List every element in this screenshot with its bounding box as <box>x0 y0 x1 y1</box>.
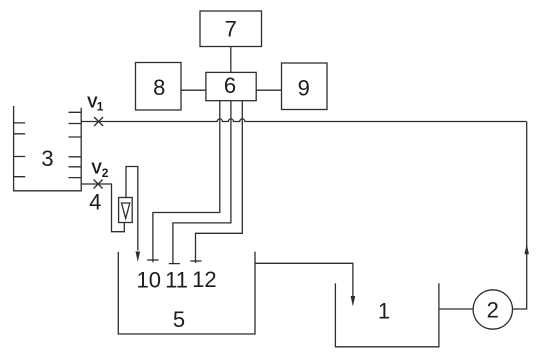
svg-text:1: 1 <box>378 299 390 324</box>
svg-text:7: 7 <box>225 17 237 42</box>
tank 3 (graduated vessel) <box>14 106 82 191</box>
wire box6 to box9 <box>256 89 281 91</box>
svg-text:2: 2 <box>487 297 499 322</box>
svg-text:4: 4 <box>89 190 101 215</box>
wire tank1 to pump <box>439 308 473 310</box>
box 9 <box>282 63 328 110</box>
box 6 <box>206 72 256 100</box>
svg-text:8: 8 <box>153 75 165 100</box>
svg-text:3: 3 <box>41 146 53 171</box>
tank 5 <box>118 252 255 334</box>
box 8 <box>136 63 182 111</box>
svg-text:6: 6 <box>224 73 236 98</box>
flow arrow up on return line <box>524 244 529 254</box>
valve V2 and feed pipe to flowmeter <box>81 161 124 232</box>
pump 2 <box>473 290 512 329</box>
svg-text:2: 2 <box>102 166 109 180</box>
transfer line tank5 to tank1 <box>255 263 353 296</box>
wire box6 to electrode 10 <box>147 101 220 262</box>
wire box6 to electrode 12 <box>190 101 242 263</box>
arrow into tank 1 <box>351 296 356 307</box>
wire box8 to box6 <box>181 89 206 91</box>
wire box6 to electrode 11 <box>169 101 231 264</box>
svg-text:11: 11 <box>165 267 188 292</box>
svg-text:5: 5 <box>173 307 185 332</box>
svg-text:10: 10 <box>137 267 161 292</box>
pipe from flowmeter top over and down into tank 5 <box>126 167 138 251</box>
return line pump to main line <box>513 122 527 310</box>
main line from valve V1 to right side, hops over electrode wires <box>81 119 527 122</box>
wire box7 to box6 <box>230 47 232 73</box>
box 7 <box>200 11 262 47</box>
svg-text:V: V <box>91 161 102 178</box>
svg-text:12: 12 <box>192 267 216 292</box>
flowmeter 4 (rotameter) <box>89 190 132 223</box>
tank 1 <box>335 283 439 347</box>
valve V1 <box>87 95 104 127</box>
arrow into tank 5 <box>136 252 141 263</box>
svg-text:1: 1 <box>97 100 104 114</box>
svg-text:9: 9 <box>298 76 310 101</box>
